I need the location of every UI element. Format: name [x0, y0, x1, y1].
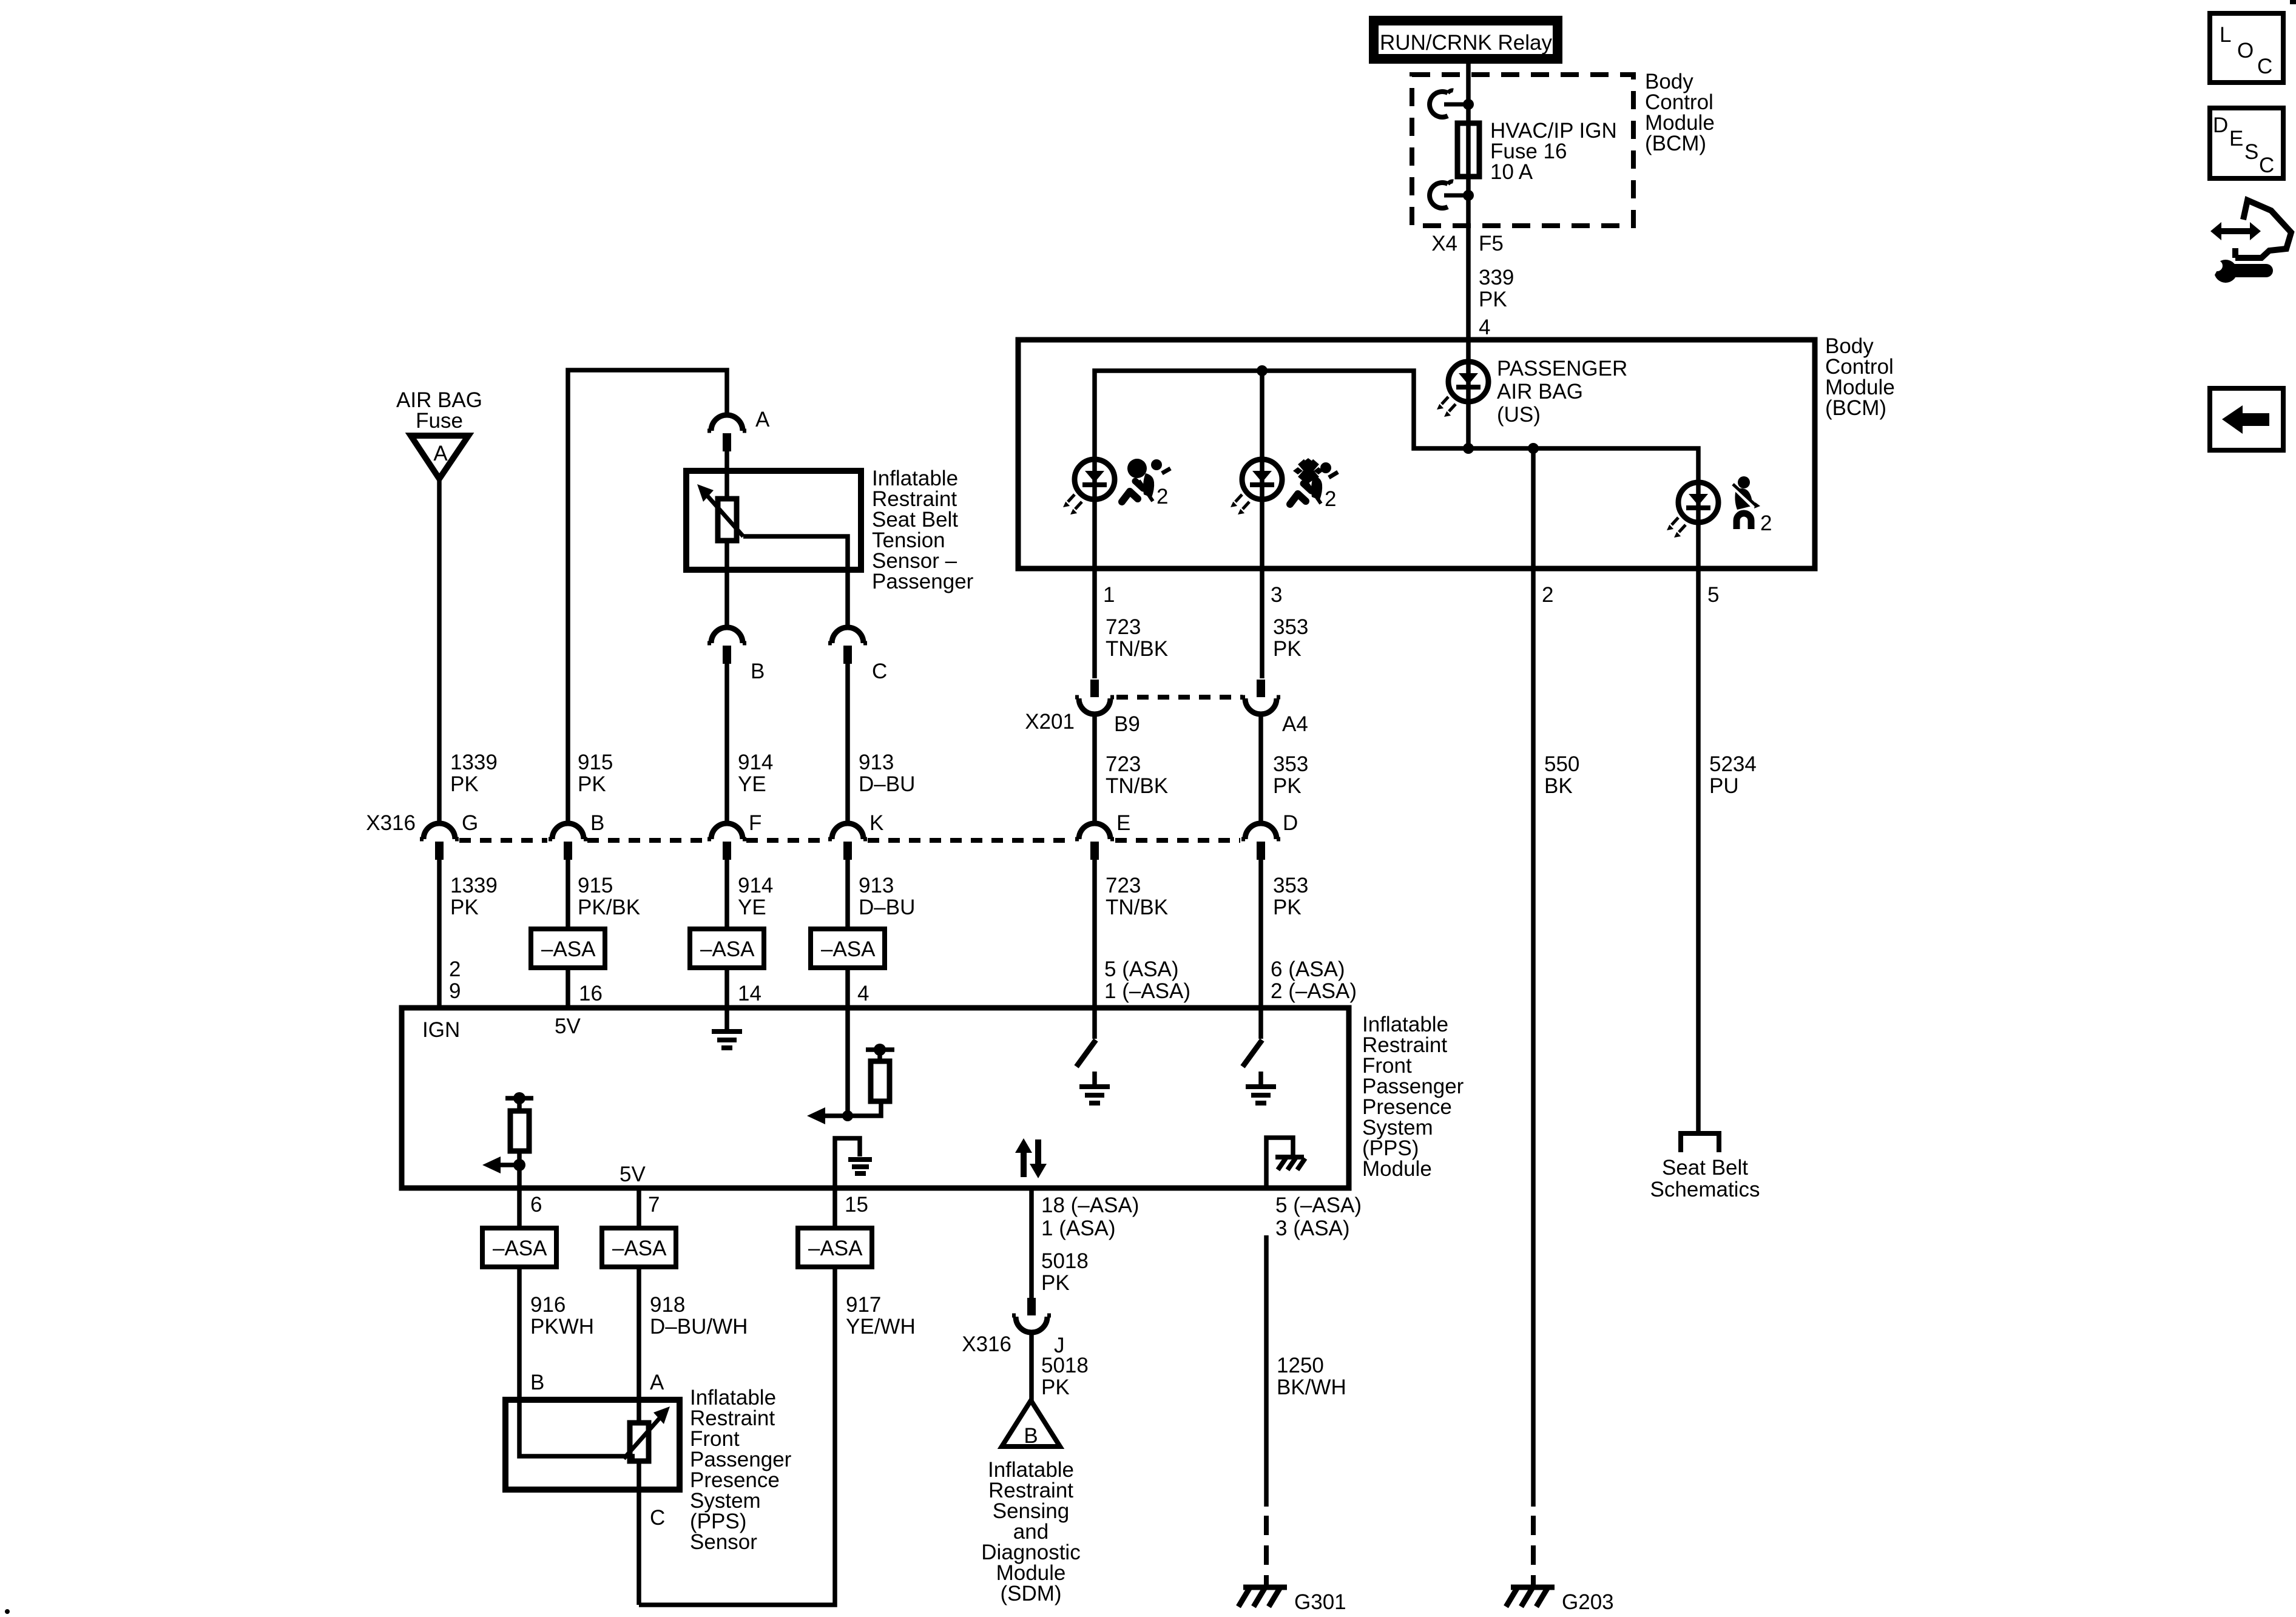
svg-text:C: C [872, 660, 887, 683]
connector X316-J [1012, 1298, 1051, 1332]
dashed box: Body Control Module (BCM) fuse block [1412, 75, 1633, 226]
switch: E input to ground [1092, 1008, 1097, 1039]
svg-text:TN/BK: TN/BK [1106, 637, 1168, 661]
splice -ASA on 915 [531, 929, 605, 968]
icon box back-arrow [2210, 388, 2283, 450]
icon: seat belt occupant symbol 5 [1732, 476, 1772, 535]
wire 1250 BK/WH [1264, 1235, 1269, 1507]
sensor drive: resistor and arrow on pin 4 line [845, 1008, 850, 1116]
svg-text:YE: YE [738, 772, 766, 796]
svg-text:2: 2 [1156, 485, 1168, 508]
connector X316-D [1241, 823, 1280, 860]
ground G203 [1506, 1587, 1555, 1607]
svg-text:D: D [2213, 113, 2228, 137]
icon box LOC [2210, 13, 2283, 83]
svg-text:B: B [590, 811, 604, 835]
svg-text:5: 5 [1707, 583, 1719, 607]
svg-text:913: 913 [859, 751, 894, 774]
svg-text:D–BU: D–BU [859, 896, 915, 919]
svg-text:Fuse: Fuse [416, 409, 463, 433]
svg-text:723: 723 [1106, 752, 1141, 776]
svg-text:PK: PK [450, 772, 479, 796]
wire: PAB LED drop [1466, 340, 1471, 448]
splice -ASA on 917 [798, 1228, 872, 1267]
box: Inflatable Restraint Front Passenger Presence System (PPS) Sensor [505, 1400, 680, 1490]
wires splice to PPS top [566, 968, 570, 1008]
svg-text:PK/BK: PK/BK [578, 896, 640, 919]
svg-text:915: 915 [578, 874, 613, 897]
svg-text:S: S [2244, 140, 2258, 164]
page tick top-right [2290, 0, 2296, 4]
wire: 913 D-BU C to X316-K [845, 664, 850, 825]
svg-text:5018: 5018 [1041, 1249, 1089, 1273]
svg-text:1250: 1250 [1277, 1354, 1324, 1377]
svg-text:B9: B9 [1114, 712, 1140, 736]
svg-text:1339: 1339 [450, 751, 498, 774]
connector X316-K [828, 823, 867, 860]
svg-text:353: 353 [1273, 615, 1308, 639]
svg-text:353: 353 [1273, 874, 1308, 897]
wire 353 PK to PPS [1258, 860, 1263, 1008]
svg-text:Passenger: Passenger [872, 570, 974, 593]
svg-text:10 A: 10 A [1490, 160, 1533, 184]
connector triangle B: SDM [1002, 1400, 1060, 1447]
svg-text:IGN: IGN [422, 1018, 460, 1042]
wire 5018 PK lower [1029, 1332, 1034, 1402]
svg-text:F: F [749, 811, 761, 835]
svg-text:14: 14 [738, 982, 761, 1005]
ground: internal on pin 14 [724, 1008, 729, 1030]
svg-text:K: K [869, 811, 883, 835]
node: junction at pin3 bus [1257, 365, 1268, 376]
svg-text:E: E [2229, 127, 2243, 150]
svg-text:PK: PK [1273, 896, 1302, 919]
svg-text:D–BU/WH: D–BU/WH [650, 1315, 748, 1338]
svg-text:A4: A4 [1282, 712, 1308, 736]
svg-text:PK: PK [1479, 288, 1507, 311]
connector X316-F [707, 823, 746, 860]
wire 550 BK [1531, 569, 1536, 1507]
fuse clip terminal lower [1430, 181, 1474, 208]
svg-text:4: 4 [1479, 316, 1490, 339]
connector X316-G [420, 823, 459, 860]
svg-text:D–BU: D–BU [859, 772, 915, 796]
svg-text:2 (–ASA): 2 (–ASA) [1271, 979, 1357, 1003]
wire pin7 to splice [636, 1188, 641, 1228]
svg-text:C: C [650, 1506, 665, 1530]
box: Inflatable Restraint Front Passenger Presence System (PPS) Module [402, 1008, 1349, 1188]
svg-text:7: 7 [648, 1193, 660, 1217]
svg-text:723: 723 [1106, 615, 1141, 639]
svg-text:9: 9 [449, 979, 461, 1003]
svg-text:723: 723 [1106, 874, 1141, 897]
svg-text:915: 915 [578, 751, 613, 774]
svg-text:(US): (US) [1497, 403, 1541, 427]
svg-text:X4: X4 [1431, 232, 1457, 255]
svg-text:(BCM): (BCM) [1825, 396, 1886, 420]
svg-text:O: O [2237, 39, 2254, 62]
connector X316-B [549, 823, 587, 860]
svg-text:PK: PK [1273, 774, 1302, 798]
svg-text:YE/WH: YE/WH [846, 1315, 916, 1338]
svg-text:X316: X316 [962, 1332, 1011, 1356]
node: junction PAB LED to bus [1463, 443, 1474, 454]
wire 918 D-BU/WH [636, 1267, 641, 1423]
svg-text:A: A [433, 442, 448, 465]
page dot bottom-left [5, 1609, 10, 1614]
svg-text:G301: G301 [1294, 1590, 1346, 1614]
svg-text:1: 1 [1103, 583, 1115, 607]
sensor drive: resistor and arrow on pin 6 line [505, 1096, 533, 1101]
fuse HVAC/IP IGN Fuse 16 10 A [1457, 123, 1479, 177]
svg-text:1339: 1339 [450, 874, 498, 897]
wire 723 TN/BK to PPS [1092, 860, 1097, 1008]
svg-text:917: 917 [846, 1293, 881, 1317]
ground G301 [1238, 1587, 1287, 1607]
splice -ASA on 918 [602, 1228, 676, 1267]
svg-text:C: C [2257, 55, 2272, 78]
icon: diagnostic wrench [2203, 200, 2291, 283]
svg-text:PK: PK [578, 772, 606, 796]
wire: 915 PK jumper [568, 370, 727, 825]
svg-text:913: 913 [859, 874, 894, 897]
svg-text:B: B [530, 1371, 544, 1394]
wire: 1339 PK fuse to X316-G [437, 479, 442, 825]
svg-text:PK: PK [1273, 637, 1302, 661]
svg-text:5 (–ASA): 5 (–ASA) [1275, 1193, 1362, 1217]
wire: internal bus upper [1095, 371, 1698, 569]
svg-text:914: 914 [738, 751, 773, 774]
svg-text:1 (ASA): 1 (ASA) [1041, 1217, 1116, 1240]
svg-text:L: L [2220, 23, 2231, 47]
fuse clip terminal upper [1430, 90, 1474, 117]
svg-text:1 (–ASA): 1 (–ASA) [1104, 979, 1190, 1003]
wire: pin 2 drop [1531, 448, 1536, 569]
icon box DESC [2210, 108, 2283, 178]
svg-text:2: 2 [449, 957, 461, 981]
wire: into sensor [724, 451, 729, 499]
serial data arrows on pin 18 [1024, 1139, 1038, 1177]
svg-text:TN/BK: TN/BK [1106, 774, 1168, 798]
LED: airbag indicator 3 [1231, 459, 1282, 515]
svg-text:550: 550 [1544, 752, 1579, 776]
svg-text:2: 2 [1542, 583, 1553, 607]
wire: 723 TN/BK pin1 to X201-B9 [1092, 569, 1097, 678]
ground: case hook on pin 15 [835, 1138, 860, 1188]
svg-text:BK: BK [1544, 774, 1573, 798]
wire 5018 PK upper [1029, 1188, 1034, 1299]
wire: wiper to C [743, 536, 848, 627]
svg-text:PK: PK [1041, 1376, 1070, 1399]
svg-text:5018: 5018 [1041, 1354, 1089, 1377]
svg-text:AIR BAG: AIR BAG [1497, 380, 1583, 403]
connector row X201 [1116, 695, 1243, 700]
svg-text:BK/WH: BK/WH [1277, 1376, 1346, 1399]
wire: 353 PK pin3 to X201-A4 [1260, 569, 1264, 678]
splice -ASA on 913 [811, 929, 885, 968]
wire 914 YE to splice [724, 860, 729, 929]
svg-text:C: C [2259, 154, 2274, 177]
svg-text:A: A [755, 408, 770, 431]
box: Inflatable Restraint Seat Belt Tension Sensor - Passenger [686, 471, 861, 570]
svg-text:18 (–ASA): 18 (–ASA) [1041, 1193, 1139, 1217]
wire: sensor output C [636, 1461, 641, 1605]
svg-text:D: D [1283, 811, 1298, 835]
LED: airbag indicator 1 [1063, 459, 1115, 515]
wire 5234 PU [1696, 569, 1701, 1131]
svg-text:15: 15 [845, 1193, 868, 1217]
LED: seat belt indicator 5 [1667, 482, 1718, 538]
box: Body Control Module (BCM) [1018, 340, 1815, 569]
svg-text:914: 914 [738, 874, 773, 897]
svg-text:(SDM): (SDM) [1000, 1582, 1061, 1605]
svg-text:6 (ASA): 6 (ASA) [1271, 957, 1345, 981]
svg-text:5234: 5234 [1709, 752, 1757, 776]
svg-text:5V: 5V [555, 1014, 581, 1038]
svg-text:X201: X201 [1025, 710, 1075, 734]
ground: chassis hook on pin 5 [1266, 1138, 1293, 1188]
svg-text:F5: F5 [1479, 232, 1504, 255]
svg-text:Seat Belt: Seat Belt [1662, 1156, 1748, 1180]
wire 1339 PK lower [437, 860, 442, 1008]
svg-text:E: E [1116, 811, 1130, 835]
svg-text:5 (ASA): 5 (ASA) [1104, 957, 1179, 981]
svg-text:PASSENGER: PASSENGER [1497, 357, 1627, 380]
svg-text:3 (ASA): 3 (ASA) [1275, 1217, 1350, 1240]
wiper arrow of tension sensor [706, 494, 743, 536]
connector B of tension sensor [707, 627, 746, 664]
wire: 723 TN/BK X201 to X316-E [1092, 714, 1097, 825]
wire: 339 PK from RUN/CRNK relay through Fuse 16 down to BCM pin 4 [1466, 61, 1471, 340]
splice -ASA on 914 [690, 929, 764, 968]
switch: D input to ground [1258, 1008, 1263, 1039]
wire: pin 3 drop [1260, 371, 1264, 569]
resistor: tension sensor element [718, 499, 737, 541]
wire: 914 YE B to X316-F [724, 664, 729, 825]
connector X316-E [1075, 823, 1114, 860]
svg-text:3: 3 [1271, 583, 1282, 607]
svg-text:2: 2 [1325, 487, 1336, 511]
node: junction pin2 to bus [1528, 443, 1539, 454]
svg-text:X316: X316 [366, 811, 416, 835]
svg-text:353: 353 [1273, 752, 1308, 776]
LED: PASSENGER AIR BAG (US) indicator [1437, 362, 1488, 417]
svg-text:YE: YE [738, 896, 766, 919]
wire pin15 to splice [832, 1188, 837, 1228]
connector C of tension sensor [828, 627, 867, 664]
svg-text:B: B [1024, 1424, 1038, 1448]
connector A of tension sensor [707, 415, 746, 451]
svg-text:TN/BK: TN/BK [1106, 896, 1168, 919]
svg-text:918: 918 [650, 1293, 685, 1317]
svg-text:16: 16 [579, 982, 603, 1005]
wire: 353 PK X201 to X316-D [1258, 714, 1263, 825]
wiper arrow of PPS sensor [624, 1416, 661, 1459]
svg-text:PK: PK [1041, 1271, 1070, 1295]
svg-text:G203: G203 [1562, 1590, 1614, 1614]
svg-text:Sensor: Sensor [690, 1530, 757, 1554]
svg-text:5V: 5V [620, 1163, 646, 1186]
resistor: PPS sensor element [630, 1423, 649, 1461]
svg-text:(BCM): (BCM) [1645, 132, 1706, 155]
wire 916 PKWH [519, 1267, 635, 1456]
svg-text:6: 6 [530, 1193, 542, 1217]
svg-text:B: B [751, 660, 765, 683]
RUN/CRNK Relay box [1369, 16, 1562, 64]
splice -ASA on 916 [482, 1228, 556, 1267]
svg-text:PKWH: PKWH [530, 1315, 594, 1338]
svg-text:RUN/CRNK Relay: RUN/CRNK Relay [1380, 31, 1552, 55]
svg-text:PU: PU [1709, 774, 1739, 798]
svg-text:339: 339 [1479, 266, 1514, 289]
svg-text:2: 2 [1760, 511, 1772, 535]
off-page bracket: Seat Belt Schematics [1681, 1133, 1719, 1152]
wire 917 YE/WH [639, 1267, 835, 1605]
wire: sensor bottom to B [724, 541, 729, 627]
svg-text:A: A [650, 1371, 664, 1394]
wire pin6 to splice [517, 1188, 522, 1228]
svg-text:G: G [462, 811, 478, 835]
icon: airbag occupant symbol 1 [1122, 459, 1170, 508]
icon: airbag-off occupant symbol 3 [1290, 458, 1338, 511]
wire 913 D-BU to splice [845, 860, 850, 929]
svg-text:Schematics: Schematics [1650, 1178, 1760, 1201]
svg-text:4: 4 [857, 982, 869, 1005]
wire 915 PK/BK to splice [566, 860, 570, 929]
svg-text:916: 916 [530, 1293, 566, 1317]
svg-text:PK: PK [450, 896, 479, 919]
svg-text:Module: Module [1362, 1157, 1432, 1181]
